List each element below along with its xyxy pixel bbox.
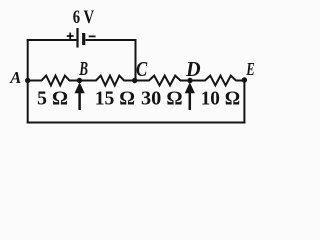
current arrow into node B (stem) bbox=[78, 93, 81, 111]
svg-text:C: C bbox=[136, 57, 148, 81]
node B junction dot bbox=[77, 78, 82, 83]
current arrow into node D (stem) bbox=[189, 93, 192, 111]
svg-text:E: E bbox=[245, 59, 254, 79]
node D junction dot bbox=[187, 78, 192, 83]
svg-text:6 V: 6 V bbox=[73, 7, 95, 28]
battery + polarity sign bbox=[67, 33, 74, 40]
current arrow into node B (head) bbox=[75, 82, 85, 93]
node C junction dot bbox=[132, 78, 137, 83]
svg-text:15 Ω: 15 Ω bbox=[95, 88, 135, 110]
wire: top-left segment from battery + plate to top-left corner bbox=[27, 39, 77, 41]
battery cell positive plate (long) bbox=[76, 28, 78, 48]
svg-text:10 Ω: 10 Ω bbox=[201, 88, 240, 110]
node E junction dot bbox=[242, 77, 247, 82]
resistor R2 15Ω between node B and node C bbox=[80, 76, 136, 86]
svg-text:30 Ω: 30 Ω bbox=[141, 88, 183, 110]
wire: from battery - plate right to corner and down to node C bbox=[86, 40, 136, 81]
battery cell negative plate (short thick) bbox=[82, 33, 85, 45]
svg-text:5 Ω: 5 Ω bbox=[37, 88, 68, 110]
resistor R1 5Ω between node A and node B bbox=[28, 76, 80, 86]
current arrow into node D (head) bbox=[185, 82, 195, 93]
wire: bottom return from bottom-left corner to bottom-right corner bbox=[27, 122, 246, 124]
svg-text:B: B bbox=[79, 58, 88, 80]
svg-text:A: A bbox=[9, 68, 21, 87]
battery - polarity sign bbox=[89, 35, 96, 37]
resistor R3 30Ω between node C and node D bbox=[135, 76, 190, 86]
wire: left vertical from top-left corner through node A to bottom-left corner bbox=[27, 39, 29, 123]
svg-text:D: D bbox=[185, 57, 201, 81]
resistor R4 10Ω between node D and node E bbox=[190, 76, 244, 86]
node A junction dot bbox=[25, 78, 30, 83]
wire: right vertical from node E down to bottom-right corner bbox=[243, 81, 245, 124]
